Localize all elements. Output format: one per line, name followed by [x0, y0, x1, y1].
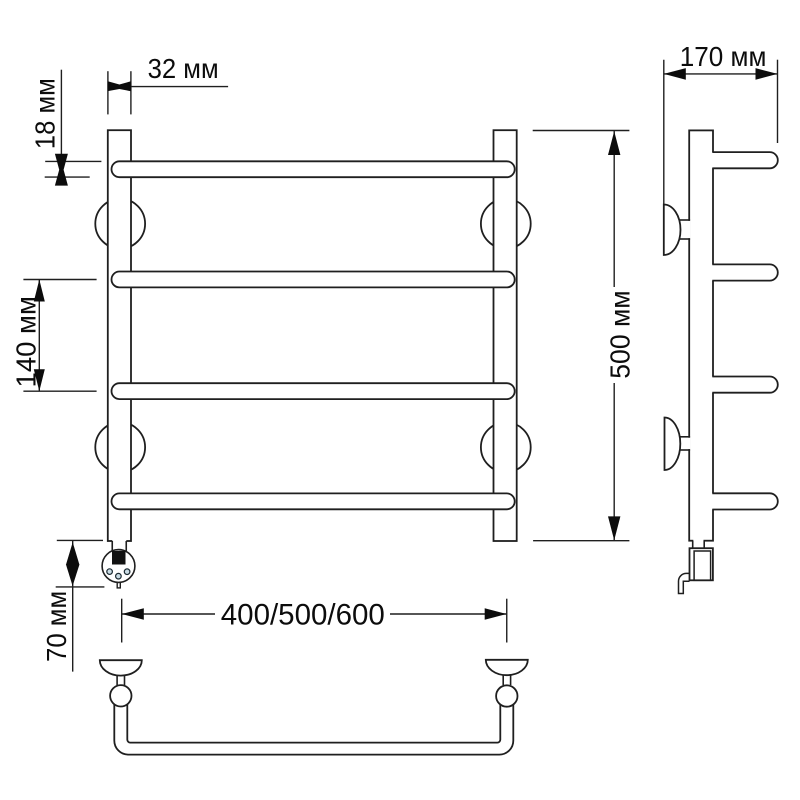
dim 500mm: down arrow: [608, 516, 620, 540]
side view: cable hook below heater box: [679, 573, 690, 593]
dim 32mm: right extension line: [130, 71, 132, 114]
dim 500mm: up arrow: [608, 131, 620, 155]
side view: lower bracket neck opening in post edge: [688, 438, 690, 449]
side view: heater neck right line: [703, 541, 705, 549]
dim 18mm: vertical line: [60, 70, 62, 165]
side view: upper bracket neck opening in post edge: [688, 221, 690, 238]
dim 70mm: top extension line: [57, 539, 103, 541]
dim 170mm: dimension line: [664, 73, 778, 75]
heating plug: pin below: [117, 582, 120, 588]
front view: wall bracket circle bottom-right: [481, 422, 531, 472]
heating plug: round body: [102, 550, 135, 583]
dim 70mm: dimension line with tail: [72, 540, 74, 671]
front view: wall bracket circle top-left: [95, 199, 145, 249]
dim 170mm: right extension line: [777, 60, 779, 143]
side view: upper bracket neck bottom line: [679, 238, 691, 240]
dim 140mm: top extension line: [23, 279, 96, 281]
side view: rung 1 outline: [712, 152, 778, 168]
dim 400/500/600: left arrow: [122, 608, 144, 620]
dim 140mm: bottom extension line: [23, 390, 96, 392]
svg-text:32 мм: 32 мм: [148, 53, 219, 84]
dim 400/500/600: right extension line: [506, 599, 508, 643]
side view: heater box outer: [690, 548, 713, 580]
side view: rung 4 outline: [712, 493, 778, 509]
heating plug: opening in post bottom: [112, 539, 126, 543]
dim 400/500/600: dimension line left segment: [122, 613, 215, 615]
front view: wall bracket circle top-right: [481, 199, 531, 249]
svg-text:70 мм: 70 мм: [41, 591, 72, 662]
heating plug: neck right line: [125, 541, 127, 551]
dim 140mm: up arrow: [34, 280, 45, 302]
heating plug: contact dot left: [107, 569, 113, 575]
dim 18mm: bottom extension line: [45, 176, 90, 178]
dim 32mm: bowtie arrows: [108, 81, 131, 91]
dim 500mm: bottom extension line: [533, 540, 629, 542]
dim 400/500/600: left extension line: [121, 599, 123, 643]
side view: rung 1 eraser: [703, 152, 778, 168]
dim 140mm: dimension line: [38, 280, 40, 392]
dim 500mm: top extension line: [533, 130, 630, 132]
side view: heater box inner: [694, 551, 711, 580]
side view: rung 2 outline: [712, 264, 778, 280]
dim 170mm: right arrow: [756, 68, 778, 80]
dim 500mm: white halo behind label: [605, 287, 632, 383]
front view: rung 3: [112, 383, 515, 399]
dim 32mm: left extension line: [107, 71, 109, 114]
bottom view: left ball joint: [110, 685, 131, 706]
heating plug: black terminal block: [112, 551, 126, 565]
side view: upper bracket neck top line: [679, 219, 691, 221]
svg-text:140 мм: 140 мм: [11, 296, 42, 387]
side view: rung 3 eraser: [703, 377, 778, 393]
dim 170mm: left extension line: [663, 60, 665, 255]
side view: heater neck left line: [692, 541, 694, 549]
front view: rung 2: [112, 272, 515, 288]
side view: lower wall bracket dome: [665, 418, 681, 471]
bottom view: right wall bracket dome: [486, 660, 528, 675]
dim 70mm: diamond double arrow: [66, 542, 79, 586]
dim 18mm: top extension line: [45, 160, 101, 162]
front view: left vertical post: [108, 130, 131, 541]
svg-text:170 мм: 170 мм: [680, 42, 767, 73]
heating plug: neck left line: [111, 541, 113, 551]
dim 70mm: bottom extension line: [56, 586, 105, 588]
side view: rung 3 outline: [712, 377, 778, 393]
dim 140mm: down arrow: [34, 369, 45, 391]
heating plug: contact dot middle: [116, 573, 122, 579]
heating plug: contact dot right: [124, 569, 130, 575]
svg-text:500 мм: 500 мм: [605, 290, 635, 378]
dim 500mm: dimension line: [613, 131, 615, 540]
front view: rung 4: [112, 493, 515, 509]
front view: rung 1: [112, 161, 515, 177]
dim 32mm: leader line: [131, 86, 228, 88]
bottom view: left wall bracket dome: [100, 660, 142, 675]
dim 170mm: left arrow: [664, 68, 686, 80]
front view: wall bracket circle bottom-left: [95, 422, 145, 472]
front view: right vertical post: [494, 130, 517, 541]
dim 400/500/600: right arrow: [485, 608, 507, 620]
side view: rung 2 eraser: [703, 264, 778, 280]
bottom view: right ball joint: [496, 685, 517, 706]
side view: lower bracket neck top line: [679, 436, 690, 438]
dim 400/500/600: dimension line right segment: [390, 613, 506, 615]
side view: heater neck opening in post bottom: [693, 539, 703, 543]
svg-text:400/500/600: 400/500/600: [221, 599, 385, 632]
svg-text:18 мм: 18 мм: [30, 78, 61, 149]
bottom view: left bracket neck lines: [116, 674, 118, 686]
side view: upper wall bracket dome: [664, 205, 681, 256]
bottom view: right bracket neck lines: [502, 674, 504, 686]
dim 18mm: hourglass double arrow: [55, 154, 68, 186]
side view: rung 4 eraser: [703, 493, 778, 509]
side view: post: [689, 130, 713, 540]
bottom view: bent tube: [114, 700, 513, 755]
side view: lower bracket neck bottom line: [679, 449, 690, 451]
